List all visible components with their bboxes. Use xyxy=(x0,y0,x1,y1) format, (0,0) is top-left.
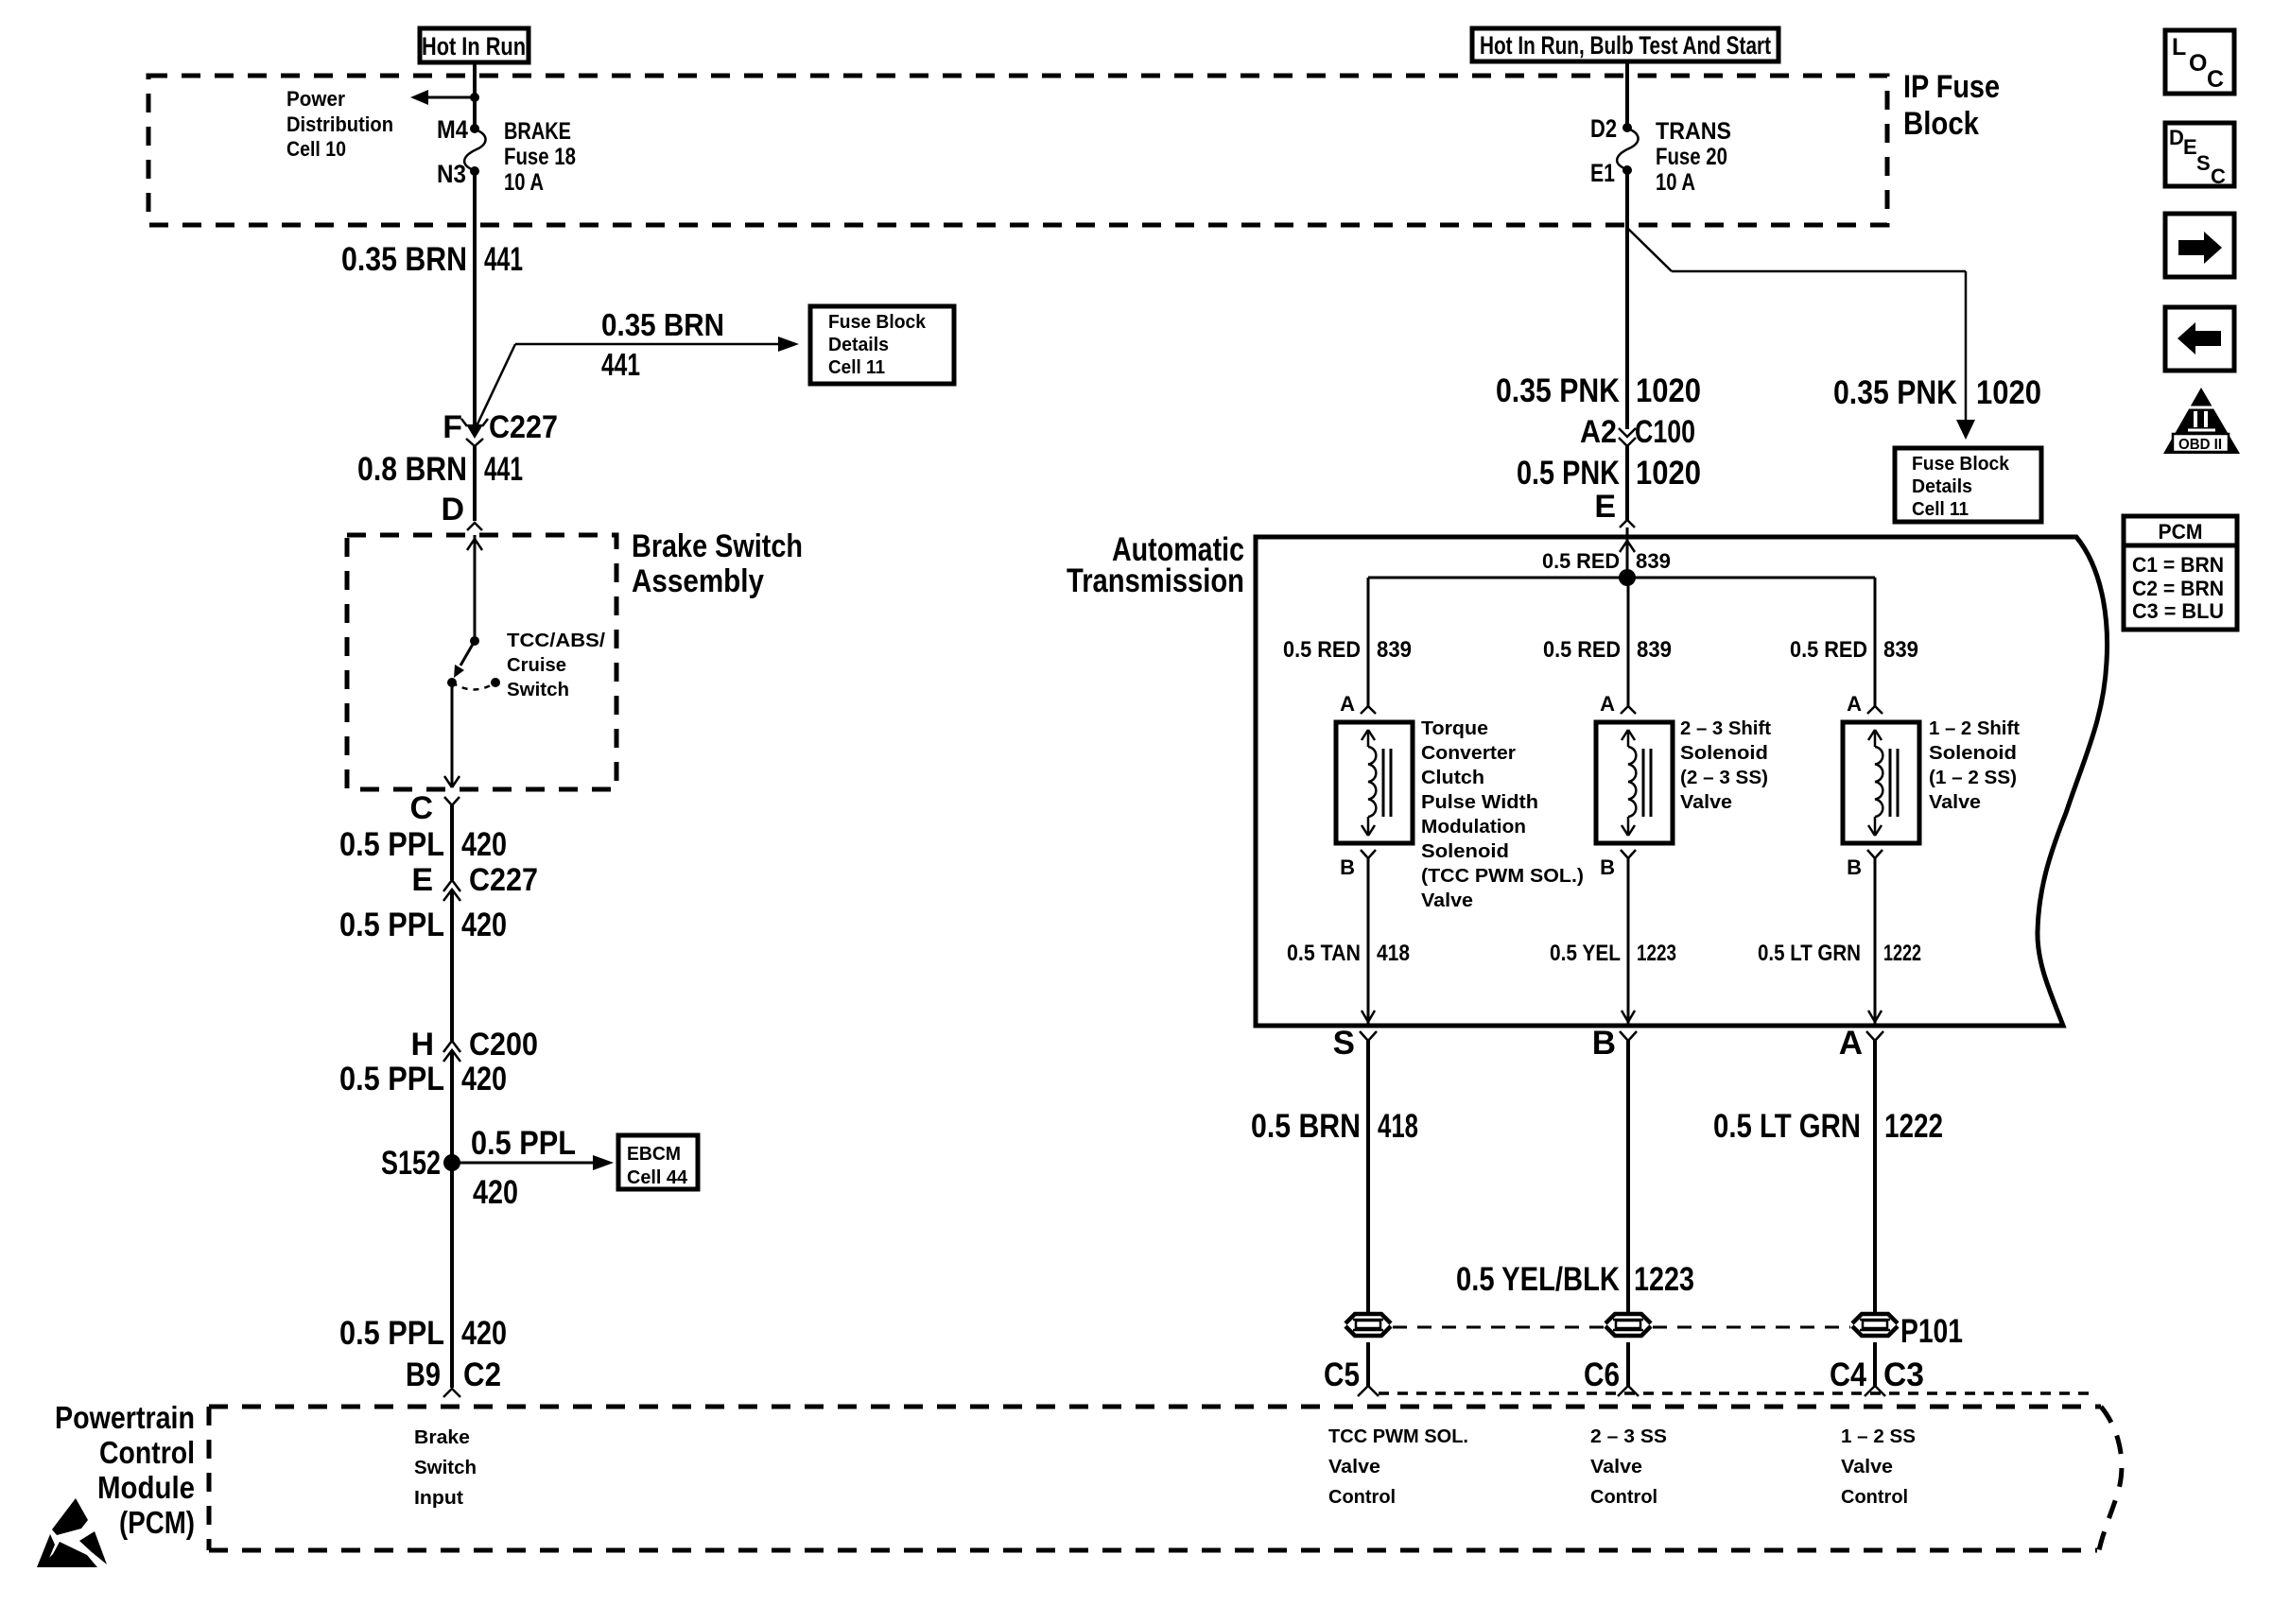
svg-text:Valve: Valve xyxy=(1841,1457,1893,1477)
wire label 0.5 TAN 418 xyxy=(1287,941,1410,966)
svg-text:C: C xyxy=(409,790,433,826)
connector chevron at A xyxy=(1866,1031,1883,1041)
svg-text:Solenoid: Solenoid xyxy=(1929,743,2017,764)
svg-text:Cell 11: Cell 11 xyxy=(1912,499,1969,520)
wire E into box with up arrow xyxy=(1620,527,1635,578)
svg-text:2 – 3 SS: 2 – 3 SS xyxy=(1590,1426,1667,1447)
svg-text:0.5 PPL: 0.5 PPL xyxy=(471,1125,576,1162)
svg-text:Cell 10: Cell 10 xyxy=(286,137,346,161)
svg-text:O: O xyxy=(2189,50,2207,77)
wire A2 to E, circuit 1020 xyxy=(1625,446,1629,520)
svg-text:Details: Details xyxy=(1912,476,1972,497)
svg-text:N3: N3 xyxy=(437,160,466,188)
label Power Distribution Cell 10 xyxy=(286,87,393,161)
value label 2-3 Shift Solenoid xyxy=(1680,718,1771,813)
svg-text:2 – 3 Shift: 2 – 3 Shift xyxy=(1680,718,1771,739)
label box "Hot In Run, Bulb Test And Start" xyxy=(1472,28,1778,61)
svg-text:Power: Power xyxy=(286,87,345,111)
svg-text:E: E xyxy=(411,862,433,898)
node junction at power distribution tap xyxy=(470,93,479,102)
wire label 0.5 RED 839 xyxy=(1283,637,1412,663)
svg-text:0.5 TAN: 0.5 TAN xyxy=(1287,941,1361,966)
svg-text:D: D xyxy=(2169,126,2184,149)
pass-through connector P101 (C6 leg) xyxy=(1605,1314,1651,1336)
svg-text:L: L xyxy=(2172,34,2186,60)
svg-text:0.5 RED: 0.5 RED xyxy=(1542,549,1620,573)
wire label 0.35 PNK 1020 xyxy=(1496,372,1701,409)
wire C5 tail xyxy=(1366,1342,1370,1386)
svg-text:1020: 1020 xyxy=(1636,455,1701,492)
svg-text:C227: C227 xyxy=(469,862,538,898)
wire label 0.5 LT GRN 1222 xyxy=(1713,1108,1943,1145)
svg-text:0.35 BRN: 0.35 BRN xyxy=(341,241,467,278)
nav icon arrow left xyxy=(2165,307,2234,371)
section title Powertrain Control Module (PCM) xyxy=(55,1400,195,1540)
svg-text:Transmission: Transmission xyxy=(1067,562,1244,599)
svg-text:Distribution: Distribution xyxy=(286,112,393,136)
wire B to box edge with exit arrow (TCC PWM) xyxy=(1362,858,1375,1024)
PCM dashed box xyxy=(209,1407,2122,1550)
svg-text:Valve: Valve xyxy=(1929,792,1981,813)
svg-text:BRAKE: BRAKE xyxy=(504,118,571,145)
in-line connector C227 pin E (double chevron) xyxy=(443,880,460,901)
svg-text:1222: 1222 xyxy=(1883,941,1921,966)
svg-text:420: 420 xyxy=(461,1315,507,1352)
svg-text:418: 418 xyxy=(1377,941,1410,966)
Automatic Transmission box with wavy right edge xyxy=(1256,537,2108,1026)
svg-text:839: 839 xyxy=(1636,549,1671,573)
svg-text:C2 = BRN: C2 = BRN xyxy=(2132,577,2224,600)
svg-text:0.5 PNK: 0.5 PNK xyxy=(1517,455,1620,492)
svg-text:(1 – 2 SS): (1 – 2 SS) xyxy=(1929,768,2017,788)
svg-text:0.5 YEL/BLK: 0.5 YEL/BLK xyxy=(1456,1261,1620,1298)
svg-text:1 – 2 Shift: 1 – 2 Shift xyxy=(1929,718,2020,739)
svg-text:C100: C100 xyxy=(1635,414,1695,450)
section title Automatic Transmission xyxy=(1067,531,1244,599)
wire label 0.5 RED 839 xyxy=(1543,637,1672,663)
svg-text:441: 441 xyxy=(601,347,640,382)
connector C227 pin F (male arrow / female chevron) xyxy=(461,419,488,446)
wire C4 tail xyxy=(1873,1342,1877,1386)
svg-text:839: 839 xyxy=(1377,637,1412,663)
solenoid TCC PWM xyxy=(1336,722,1413,843)
value label 1-2 Shift Solenoid xyxy=(1929,718,2020,813)
wire A to C4, circuit 1222 xyxy=(1873,1041,1877,1314)
svg-text:C: C xyxy=(2207,66,2224,93)
wire label 0.5 LT GRN 1222 xyxy=(1758,941,1921,966)
svg-text:1223: 1223 xyxy=(1637,941,1676,966)
svg-text:0.35 PNK: 0.35 PNK xyxy=(1496,372,1620,409)
svg-text:PCM: PCM xyxy=(2159,520,2203,544)
legend box PCM connector colors xyxy=(2124,516,2237,630)
svg-text:B9: B9 xyxy=(406,1356,441,1393)
svg-text:C4: C4 xyxy=(1830,1356,1866,1393)
svg-text:A2: A2 xyxy=(1580,414,1617,450)
svg-text:1222: 1222 xyxy=(1884,1108,1943,1145)
svg-text:S152: S152 xyxy=(381,1145,441,1182)
svg-text:Control: Control xyxy=(99,1435,195,1470)
wire H to S152, circuit 420 xyxy=(450,1050,454,1388)
svg-text:S: S xyxy=(2196,151,2211,175)
svg-text:Switch: Switch xyxy=(414,1458,477,1478)
svg-text:D2: D2 xyxy=(1590,114,1617,143)
switch contact node xyxy=(447,678,457,687)
svg-text:0.5 LT GRN: 0.5 LT GRN xyxy=(1758,941,1861,966)
svg-text:Modulation: Modulation xyxy=(1421,817,1526,838)
svg-text:441: 441 xyxy=(484,241,523,278)
connector chevron at A (1-2 SS) xyxy=(1867,706,1883,714)
svg-text:Control: Control xyxy=(1328,1487,1396,1508)
svg-text:420: 420 xyxy=(473,1174,518,1211)
svg-text:0.5 BRN: 0.5 BRN xyxy=(1251,1108,1361,1145)
svg-text:Control: Control xyxy=(1590,1487,1657,1508)
svg-text:Assembly: Assembly xyxy=(632,563,764,599)
svg-text:839: 839 xyxy=(1883,637,1918,663)
label 1-2 SS Valve Control xyxy=(1841,1426,1916,1508)
label TCC PWM SOL. Valve Control xyxy=(1328,1426,1468,1508)
nav icon LOC xyxy=(2165,30,2234,94)
fuse F20 (TRANS Fuse 20 10 A) xyxy=(1617,123,1638,175)
svg-text:Block: Block xyxy=(1903,106,1979,142)
wire Hot In Run to fuse M4 xyxy=(473,62,477,129)
svg-text:0.5 PPL: 0.5 PPL xyxy=(339,907,444,943)
svg-text:C5: C5 xyxy=(1324,1356,1360,1393)
wire B to C6, circuit 1223 xyxy=(1626,1041,1630,1314)
svg-text:420: 420 xyxy=(461,826,507,863)
svg-text:10 A: 10 A xyxy=(1656,169,1695,196)
nav icon DESC xyxy=(2165,123,2234,188)
svg-text:C6: C6 xyxy=(1584,1356,1620,1393)
splice S152 xyxy=(443,1154,460,1171)
svg-text:OBD II: OBD II xyxy=(2178,437,2222,453)
svg-text:Clutch: Clutch xyxy=(1421,768,1484,788)
wire label 0.5 PPL 420 xyxy=(339,1061,507,1097)
svg-text:EBCM: EBCM xyxy=(627,1144,681,1165)
svg-text:1020: 1020 xyxy=(1636,372,1701,409)
connector chevron at C4 xyxy=(1865,1386,1885,1396)
wire C to E, circuit 420 xyxy=(450,805,454,880)
wire drop to TCC solenoid, 0.5 RED 839 xyxy=(1367,578,1370,706)
svg-text:A: A xyxy=(1340,692,1355,716)
pass-through connector P101 (C4 leg) xyxy=(1852,1314,1898,1336)
svg-text:P101: P101 xyxy=(1900,1313,1963,1350)
svg-text:F: F xyxy=(442,409,462,445)
splice node inside transmission xyxy=(1619,569,1636,586)
label box EBCM Cell 44 xyxy=(618,1135,698,1189)
svg-text:E: E xyxy=(2183,135,2197,159)
wire S152 to EBCM xyxy=(452,1155,614,1170)
wire C6 tail xyxy=(1626,1342,1630,1386)
svg-text:Converter: Converter xyxy=(1421,743,1516,764)
fuse F18 (BRAKE Fuse 18 10 A) xyxy=(464,124,485,176)
bus wire across solenoids xyxy=(1368,577,1875,579)
svg-text:Valve: Valve xyxy=(1328,1457,1380,1477)
svg-text:Brake Switch: Brake Switch xyxy=(632,528,803,564)
wire label 0.5 PPL / 420 xyxy=(471,1125,576,1211)
svg-text:(2 – 3 SS): (2 – 3 SS) xyxy=(1680,768,1768,788)
svg-text:M4: M4 xyxy=(437,115,468,144)
wire label 0.35 PNK 1020 (branch) xyxy=(1833,374,2041,411)
svg-text:0.5 PPL: 0.5 PPL xyxy=(339,1061,444,1097)
svg-text:Fuse 18: Fuse 18 xyxy=(504,144,576,170)
svg-text:Switch: Switch xyxy=(507,680,569,700)
wire branch to fuse block details (right) xyxy=(1627,228,1975,440)
wire S to C5, circuit 418 xyxy=(1366,1041,1370,1314)
svg-text:10 A: 10 A xyxy=(504,169,544,196)
svg-text:Solenoid: Solenoid xyxy=(1421,841,1509,862)
svg-text:Fuse Block: Fuse Block xyxy=(1912,454,2010,475)
dashed link to cruise contact xyxy=(452,682,495,690)
connector chevron at A (TCC PWM) xyxy=(1361,706,1376,714)
dashed harness line P101 xyxy=(1393,1326,1850,1329)
connector chevron at B xyxy=(1620,1031,1637,1041)
svg-text:C227: C227 xyxy=(489,409,558,445)
svg-text:B: B xyxy=(1600,855,1615,879)
wire drop to 1-2 solenoid, 0.5 RED 839 xyxy=(1874,578,1877,706)
svg-text:420: 420 xyxy=(461,1061,507,1097)
svg-text:E1: E1 xyxy=(1590,159,1615,187)
wire N3 to connector F, circuit 441 xyxy=(473,173,477,424)
svg-text:Valve: Valve xyxy=(1680,792,1732,813)
svg-text:TCC/ABS/: TCC/ABS/ xyxy=(507,631,605,651)
svg-text:C: C xyxy=(2211,164,2226,188)
svg-text:C1 = BRN: C1 = BRN xyxy=(2132,553,2224,577)
svg-text:Brake: Brake xyxy=(414,1427,470,1448)
svg-text:B: B xyxy=(1340,855,1355,879)
svg-text:Pulse Width: Pulse Width xyxy=(1421,792,1538,813)
connector chevron at B9 xyxy=(443,1389,460,1397)
value label BRAKE Fuse 18 10 A xyxy=(504,118,576,196)
wire label 0.5 YEL 1223 xyxy=(1550,941,1676,966)
nav icon arrow right xyxy=(2165,214,2234,277)
svg-text:0.5 RED: 0.5 RED xyxy=(1790,637,1867,663)
svg-text:Module: Module xyxy=(97,1470,195,1505)
label box "Hot In Run" xyxy=(420,28,529,62)
svg-text:Hot In Run: Hot In Run xyxy=(422,32,526,60)
svg-text:Hot In Run, Bulb Test And Star: Hot In Run, Bulb Test And Start xyxy=(1480,31,1771,60)
svg-text:(PCM): (PCM) xyxy=(119,1505,195,1540)
OBD II symbol xyxy=(2163,388,2240,454)
svg-text:0.35 PNK: 0.35 PNK xyxy=(1833,374,1957,411)
svg-text:A: A xyxy=(1600,692,1615,716)
svg-text:Control: Control xyxy=(1841,1487,1908,1508)
wire label 0.5 PPL 420 xyxy=(339,826,507,863)
svg-text:1223: 1223 xyxy=(1634,1261,1694,1298)
wire label 0.5 BRN 418 xyxy=(1251,1108,1418,1145)
wire F to D, circuit 441 xyxy=(473,446,477,521)
svg-text:0.5 LT GRN: 0.5 LT GRN xyxy=(1713,1108,1861,1145)
switch arm (brake switch blade) xyxy=(454,641,475,678)
svg-text:S: S xyxy=(1333,1025,1355,1062)
svg-text:839: 839 xyxy=(1637,637,1672,663)
wire label 0.8 BRN 441 xyxy=(357,451,523,488)
svg-text:Details: Details xyxy=(828,335,889,355)
svg-text:420: 420 xyxy=(461,907,507,943)
wire E1 to connector A2, circuit 1020 xyxy=(1625,172,1629,429)
svg-text:0.5 PPL: 0.5 PPL xyxy=(339,1315,444,1352)
ESD warning symbol xyxy=(37,1498,107,1567)
value label TRANS Fuse 20 10 A xyxy=(1656,118,1731,196)
wire arrow to Power Distribution xyxy=(410,90,475,105)
svg-text:Valve: Valve xyxy=(1421,890,1473,911)
wire label 0.5 PPL 420 xyxy=(339,1315,507,1352)
wire label 0.5 PPL 420 xyxy=(339,907,507,943)
connector chevron at C5 xyxy=(1358,1386,1379,1396)
wire label 0.5 YEL/BLK 1223 xyxy=(1456,1261,1694,1298)
svg-text:Cruise: Cruise xyxy=(507,655,566,676)
svg-text:Fuse 20: Fuse 20 xyxy=(1656,144,1727,170)
svg-text:TCC PWM SOL.: TCC PWM SOL. xyxy=(1328,1426,1468,1447)
svg-text:A: A xyxy=(1847,692,1862,716)
solenoid 2-3 SS xyxy=(1596,722,1673,843)
connector chevron at S xyxy=(1360,1031,1377,1041)
connector chevron at E xyxy=(1620,520,1635,527)
dashed connector face line xyxy=(1379,1391,2095,1395)
connector chevron at D xyxy=(467,523,482,530)
svg-text:0.5 RED: 0.5 RED xyxy=(1283,637,1361,663)
svg-text:0.8 BRN: 0.8 BRN xyxy=(357,451,467,488)
svg-text:E: E xyxy=(1594,489,1616,525)
svg-text:Cell 11: Cell 11 xyxy=(828,357,885,378)
label Brake Switch Input xyxy=(414,1427,477,1509)
wire label 0.5 RED 839 xyxy=(1790,637,1918,663)
svg-text:A: A xyxy=(1839,1025,1863,1062)
brake switch: input wire with up arrow xyxy=(467,535,482,641)
svg-text:Cell 44: Cell 44 xyxy=(627,1167,688,1188)
wire branch to fuse block details xyxy=(475,337,799,430)
svg-text:C3: C3 xyxy=(1883,1356,1924,1393)
in-line connector C200 pin H (double chevron) xyxy=(443,1041,460,1062)
svg-text:0.5 RED: 0.5 RED xyxy=(1543,637,1621,663)
svg-text:Torque: Torque xyxy=(1421,718,1488,739)
wire label 0.5 RED 839 (top) xyxy=(1542,549,1671,573)
wire label 0.35 BRN 441 xyxy=(341,241,523,278)
connector chevron at C6 xyxy=(1618,1386,1639,1396)
connector chevron at B (TCC PWM) xyxy=(1361,850,1376,858)
svg-text:TRANS: TRANS xyxy=(1656,118,1731,145)
svg-text:1020: 1020 xyxy=(1976,374,2041,411)
connector chevron at A (2-3 SS) xyxy=(1621,706,1636,714)
in-line connector C100 pin A2 (double chevron) xyxy=(1619,428,1636,446)
svg-text:0.35 BRN: 0.35 BRN xyxy=(601,307,724,342)
label box Fuse Block Details Cell 11 (right) xyxy=(1895,448,2041,522)
solenoid 1-2 SS xyxy=(1843,722,1919,843)
section title Brake Switch Assembly xyxy=(632,528,803,599)
svg-text:B: B xyxy=(1592,1025,1616,1062)
connector chevron at B (2-3 SS) xyxy=(1621,850,1636,858)
svg-text:H: H xyxy=(410,1027,434,1063)
svg-text:0.5 YEL: 0.5 YEL xyxy=(1550,941,1621,966)
svg-text:1 – 2 SS: 1 – 2 SS xyxy=(1841,1426,1916,1447)
Brake Switch Assembly dashed box xyxy=(347,535,616,789)
svg-text:Input: Input xyxy=(414,1488,463,1509)
IP Fuse Block dashed box xyxy=(148,76,1887,225)
switch output wire with down arrow xyxy=(444,682,460,787)
value label Torque Converter Clutch PWM Solenoid xyxy=(1421,718,1584,911)
label TCC/ABS/Cruise Switch xyxy=(507,631,605,700)
cruise contact node xyxy=(491,678,500,687)
wire Hot In Run Bulb to fuse D2 xyxy=(1625,61,1629,128)
svg-text:Valve: Valve xyxy=(1590,1457,1642,1477)
label 2-3 SS Valve Control xyxy=(1590,1426,1667,1508)
svg-text:C200: C200 xyxy=(469,1027,538,1063)
svg-text:D: D xyxy=(441,492,464,527)
svg-text:B: B xyxy=(1847,855,1862,879)
svg-text:Powertrain: Powertrain xyxy=(55,1400,195,1435)
svg-text:C3 = BLU: C3 = BLU xyxy=(2132,599,2224,623)
connector chevron at C xyxy=(444,797,460,805)
section title IP Fuse Block xyxy=(1903,69,2000,142)
wire B to box edge with exit arrow (1-2 SS) xyxy=(1868,858,1882,1024)
wire E to H, circuit 420 xyxy=(450,890,454,1041)
wire B to box edge with exit arrow (2-3 SS) xyxy=(1622,858,1635,1024)
svg-text:C2: C2 xyxy=(463,1356,501,1393)
svg-text:Solenoid: Solenoid xyxy=(1680,743,1768,764)
svg-text:0.5 PPL: 0.5 PPL xyxy=(339,826,444,863)
wire label 0.5 PNK 1020 xyxy=(1517,455,1701,492)
svg-text:441: 441 xyxy=(484,451,523,488)
svg-text:Fuse Block: Fuse Block xyxy=(828,312,927,333)
wire drop to 2-3 solenoid, 0.5 RED 839 xyxy=(1627,578,1630,706)
svg-text:(TCC PWM SOL.): (TCC PWM SOL.) xyxy=(1421,866,1584,887)
pass-through connector P101 (C5 leg) xyxy=(1345,1314,1391,1336)
connector chevron at B (1-2 SS) xyxy=(1867,850,1883,858)
svg-text:IP Fuse: IP Fuse xyxy=(1903,69,2000,105)
label box Fuse Block Details Cell 11 xyxy=(810,306,954,384)
switch common node xyxy=(470,636,479,646)
wire label 0.35 BRN 441 (branch) xyxy=(601,307,724,382)
svg-text:418: 418 xyxy=(1378,1108,1418,1145)
